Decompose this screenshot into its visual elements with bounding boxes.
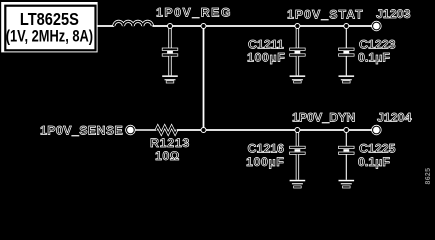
junction dot (top of vertical rail) [201, 24, 206, 29]
junction dot (bottom of vertical rail) [201, 128, 206, 133]
wire box output to inductor [97, 25, 114, 27]
svg-text:100µF: 100µF [246, 155, 284, 169]
junction dot (C1211) [295, 24, 300, 29]
ground under C_out [162, 75, 178, 83]
svg-text:0.1µF: 0.1µF [358, 51, 390, 65]
svg-text:C1225: C1225 [359, 141, 396, 155]
svg-text:(1V, 2MHz, 8A): (1V, 2MHz, 8A) [6, 27, 93, 46]
svg-text:1P0V_REG: 1P0V_REG [156, 5, 232, 19]
wire vertical rail to bottom section [203, 26, 205, 130]
junction dot (L out / C_out) [168, 24, 173, 29]
svg-text:1P0V_SENSE: 1P0V_SENSE [40, 123, 123, 137]
value label C1216 100uF [246, 141, 284, 169]
svg-text:J1203: J1203 [376, 7, 411, 21]
svg-text:C1216: C1216 [248, 141, 285, 155]
junction dot (C1223) [344, 24, 349, 29]
connector J1203 [372, 21, 382, 31]
wire sense to resistor [135, 129, 156, 131]
capacitor C1225 [339, 130, 355, 180]
connector J1204 [372, 125, 382, 135]
junction dot (C1216) [295, 128, 300, 133]
IC block U1 LT8625S [1, 2, 97, 52]
value label R1213 10ohm [150, 136, 190, 163]
svg-text:1P0V_STAT: 1P0V_STAT [287, 8, 364, 22]
wire top rail 1P0V_REG/1P0V_STAT [152, 25, 371, 27]
svg-text:J1204: J1204 [377, 110, 412, 124]
capacitor C_out (unlabeled) [162, 26, 178, 75]
connector/testpoint (sense) [126, 125, 136, 135]
value label C1225 0.1uF [358, 141, 396, 169]
svg-text:0.1µF: 0.1µF [358, 155, 390, 169]
inductor L1 [114, 21, 153, 26]
ground under C1223 [339, 75, 355, 83]
svg-text:100µF: 100µF [247, 51, 285, 65]
svg-text:R1213: R1213 [150, 136, 190, 150]
ground under C1211 [290, 75, 306, 83]
capacitor C1223 [339, 26, 355, 75]
svg-text:8625: 8625 [425, 168, 432, 185]
value label C1211 100uF [247, 37, 285, 64]
capacitor C1216 [290, 130, 306, 180]
svg-text:10Ω: 10Ω [155, 149, 180, 163]
wire bottom rail 1P0V_DYN [177, 129, 372, 131]
svg-text:C1211: C1211 [248, 37, 284, 51]
svg-text:1P0V_DYN: 1P0V_DYN [292, 111, 355, 125]
resistor R1213 [156, 127, 177, 134]
ground under C1216 [290, 180, 306, 188]
ground under C1225 [339, 180, 355, 188]
capacitor C1211 [290, 26, 306, 75]
value label C1223 0.1uF [358, 37, 396, 64]
junction dot (C1225) [344, 128, 349, 133]
svg-text:C1223: C1223 [359, 37, 396, 51]
